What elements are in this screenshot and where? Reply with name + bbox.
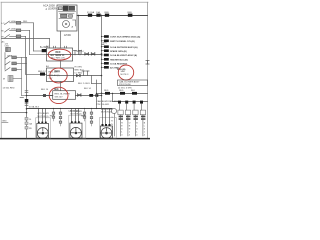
- terminal T4: [140, 101, 146, 136]
- terminal T1: [118, 101, 123, 136]
- blower motor B3: [100, 109, 112, 139]
- top supply bus wire: [77, 15, 148, 17]
- left vertical bus wire: [26, 57, 28, 138]
- relay K2 box: [46, 65, 74, 82]
- markup ellipse 3: [49, 87, 68, 103]
- wire B+ feed: [2, 39, 50, 44]
- svg-text:RED: RED: [56, 52, 61, 54]
- stub label lower-left: [2, 120, 8, 122]
- wire terminal header: [113, 101, 148, 103]
- right notes row 1: [102, 35, 141, 38]
- terminal T1 wire tags: [119, 116, 124, 137]
- right notes row 9: [102, 66, 120, 69]
- wire stub down to feeder: [96, 80, 98, 109]
- border frame bottom: [0, 138, 150, 140]
- markup ellipse 1: [48, 49, 71, 60]
- wire into K3 left stub: [43, 95, 53, 97]
- switch SW1 rung 3: [2, 35, 26, 39]
- wire into relay B: [26, 73, 47, 75]
- svg-text:MED BLU: MED BLU: [75, 70, 85, 72]
- blower motor B1 enclosure: [36, 118, 51, 138]
- svg-text:GND: GND: [2, 120, 7, 122]
- svg-text:14 GA WHT/GRN ASSY-(A): 14 GA WHT/GRN ASSY-(A): [110, 46, 138, 49]
- svg-text:RED: RED: [128, 12, 133, 14]
- svg-text:HI ORN: HI ORN: [75, 67, 83, 69]
- capacitor C4: [86, 71, 89, 76]
- svg-text:GRN: GRN: [102, 43, 107, 45]
- wire drop B+ to relay K1: [49, 39, 51, 49]
- wire to bus lower: [92, 83, 102, 85]
- svg-text:HTR. BLWR: HTR. BLWR: [38, 113, 50, 115]
- svg-text:P/N 123-456: P/N 123-456: [119, 84, 132, 86]
- svg-text:▲ LEVER-(1): ▲ LEVER-(1): [45, 8, 60, 11]
- wire right feeder: [97, 93, 148, 95]
- wire drop from rung1: [33, 23, 35, 51]
- svg-text:SPARE GRN-(B): SPARE GRN-(B): [110, 50, 127, 53]
- relay K1 top stubs: [54, 46, 67, 48]
- right notes row 8: [102, 62, 128, 65]
- svg-text:BLO RES 24V: BLO RES 24V: [51, 58, 66, 60]
- boxed note N1: [118, 80, 148, 86]
- inline connector stack C5: [25, 118, 28, 130]
- svg-text:BLK 2-1543: BLK 2-1543: [78, 83, 90, 85]
- dropping resistor stack D3: [83, 109, 86, 122]
- svg-text:14 GA. RED: 14 GA. RED: [3, 86, 15, 89]
- blower motor B1 label: [38, 113, 50, 118]
- blower motor B2: [70, 109, 82, 139]
- terminal T4 wire tags: [141, 116, 146, 137]
- wire into relay A: [30, 51, 48, 55]
- switch SW2 rung 1: [5, 55, 27, 59]
- caption resistor assy: [97, 100, 120, 106]
- svg-text:SEE: SEE: [54, 89, 59, 91]
- wire drop to header: [112, 94, 114, 102]
- terminal T3: [133, 101, 139, 136]
- relay cluster inside U1: [59, 6, 76, 19]
- right notes row 4: [102, 45, 138, 48]
- junction dots on bus: [53, 15, 113, 109]
- svg-text:BLK: BLK: [131, 90, 136, 92]
- wire from coil L1: [13, 57, 27, 95]
- dropping resistor stack D2: [59, 109, 62, 127]
- splice S4: [38, 71, 46, 76]
- border frame left: [0, 2, 2, 138]
- splice S3: [42, 49, 47, 52]
- capacitor C3: [82, 71, 85, 76]
- svg-text:F1 20A: F1 20A: [87, 11, 95, 14]
- svg-text:M: M: [2, 30, 4, 32]
- switch SW2 rung 2: [5, 62, 27, 65]
- connector P1 round: [111, 108, 116, 136]
- fuse F2 on top bus: [96, 11, 101, 17]
- coil L1: [3, 76, 13, 82]
- wire relay K2 to bus: [47, 75, 102, 77]
- svg-text:HEATER BLU-(B): HEATER BLU-(B): [110, 58, 128, 61]
- svg-text:RED: RED: [104, 90, 109, 92]
- capacitor C1: [73, 51, 76, 56]
- wire U1 bottom to relay K1: [60, 31, 62, 48]
- svg-text:BLK 14: BLK 14: [84, 88, 92, 90]
- svg-text:ORN 14: ORN 14: [76, 51, 84, 53]
- resistor R2 bowtie: [91, 53, 95, 56]
- resistor R3 bowtie: [77, 74, 81, 77]
- svg-text:10A: 10A: [96, 11, 100, 14]
- capacitor C2: [78, 51, 81, 56]
- title text ACA 2008: [43, 4, 60, 11]
- blower motor B2 enclosure: [69, 115, 86, 138]
- splice S9 on left bus: [25, 99, 29, 103]
- svg-text:RED: RED: [23, 21, 28, 23]
- blower motor B3 enclosure: [99, 118, 116, 138]
- svg-text:BLK 14: BLK 14: [41, 89, 49, 91]
- splice S5c: [43, 94, 46, 97]
- right notes row 6: [102, 54, 138, 57]
- junction dots: [26, 53, 103, 113]
- blower motor B1: [37, 109, 49, 139]
- connector J2 upper-left: [5, 46, 11, 52]
- net label rows center: [75, 67, 85, 75]
- fuse F1 on top bus: [87, 11, 95, 17]
- svg-text:NOTE 3: NOTE 3: [121, 74, 130, 76]
- svg-text:CONT. BLK WIRING DIAG-(A): CONT. BLK WIRING DIAG-(A): [110, 36, 141, 39]
- tick marks on left bus: [20, 91, 28, 106]
- svg-text:12VDC: 12VDC: [64, 35, 72, 37]
- wire relay K2 to relay K3: [60, 82, 62, 91]
- switch SW2 rung 3: [5, 68, 22, 71]
- markup note 1 text: [51, 52, 66, 60]
- splice S2 on top bus: [128, 12, 133, 17]
- svg-text:RED: RED: [119, 90, 124, 92]
- relay K1 box: [46, 45, 73, 61]
- right notes row 3: [102, 43, 108, 45]
- svg-text:P/N 210-4451: P/N 210-4451: [97, 104, 111, 106]
- svg-text:SEE: SEE: [121, 71, 126, 73]
- terminal T2: [125, 101, 130, 136]
- switch SW2 stem: [4, 53, 6, 70]
- svg-text:SW 24V: SW 24V: [55, 97, 64, 99]
- wire center lower: [91, 76, 93, 84]
- label in circle 4: [121, 71, 130, 76]
- blower motor B2 label: [71, 111, 83, 116]
- node stub labels: [76, 50, 84, 54]
- terminal T3 wire tags: [134, 116, 139, 137]
- svg-text:RES: RES: [81, 116, 86, 118]
- right notes row 5: [102, 49, 127, 52]
- wire horizontal lower-left: [1, 112, 26, 114]
- splice S5b: [95, 94, 98, 97]
- relay K3 box: [53, 91, 76, 100]
- wire drop from rung2: [29, 30, 31, 54]
- switch SW1 rung 2: [2, 27, 30, 32]
- ground bus wire: [27, 108, 113, 110]
- svg-text:14 GA BLU/WHT ASSY-(A): 14 GA BLU/WHT ASSY-(A): [110, 54, 137, 57]
- svg-text:RED 12: RED 12: [38, 71, 46, 73]
- svg-text:MAX: MAX: [55, 70, 61, 73]
- wire into relay K3: [27, 89, 53, 96]
- blower motor B3 label: [101, 109, 113, 114]
- switch rotor circle inside U1: [63, 21, 70, 28]
- markup ellipse 2: [50, 68, 67, 83]
- svg-text:14GA: 14GA: [11, 20, 17, 23]
- wire relay K1 to relay K2: [60, 61, 62, 68]
- label center lower: [0, 0, 1, 1]
- wire relay K3 to bus: [76, 95, 102, 97]
- label beside connector stack: [29, 119, 33, 130]
- resistor R1 bowtie: [85, 53, 89, 56]
- svg-text:RES: RES: [50, 116, 55, 118]
- svg-text:RED: RED: [105, 12, 110, 14]
- splice S5: [89, 94, 93, 97]
- U1 side terminal: [72, 20, 76, 29]
- markup note 3 text: [54, 89, 59, 91]
- markup circle 4: [118, 65, 133, 80]
- main vertical bus wire: [101, 15, 103, 109]
- right notes row 2: [102, 40, 135, 43]
- control head assembly box U1: [57, 5, 77, 31]
- svg-text:M: M: [3, 79, 5, 81]
- wire relay K1 to bus: [47, 54, 102, 56]
- splice S6: [104, 90, 110, 95]
- resistor R4 bowtie: [78, 94, 82, 97]
- switch SW1 rung 1: [2, 20, 34, 25]
- right border tick mark: [146, 61, 149, 65]
- splice S7: [119, 90, 125, 95]
- dropping resistor stack D4: [90, 109, 93, 127]
- svg-text:SWITCH PANEL 12V-(B): SWITCH PANEL 12V-(B): [110, 40, 135, 43]
- dropping resistor stack D1: [52, 109, 55, 122]
- markup note 2 text: [55, 70, 61, 73]
- terminal T2 wire tags: [126, 116, 131, 137]
- svg-text:LO RED: LO RED: [75, 73, 83, 75]
- splice S1 on top bus: [105, 12, 110, 17]
- wire vertical from U1 to center: [78, 16, 80, 55]
- wire drop from rung3: [25, 36, 27, 74]
- border frame right: [147, 2, 149, 138]
- svg-text:14GA: 14GA: [11, 27, 17, 30]
- right notes row 7: [102, 58, 128, 61]
- border frame top: [1, 1, 148, 3]
- splice S8: [131, 90, 137, 95]
